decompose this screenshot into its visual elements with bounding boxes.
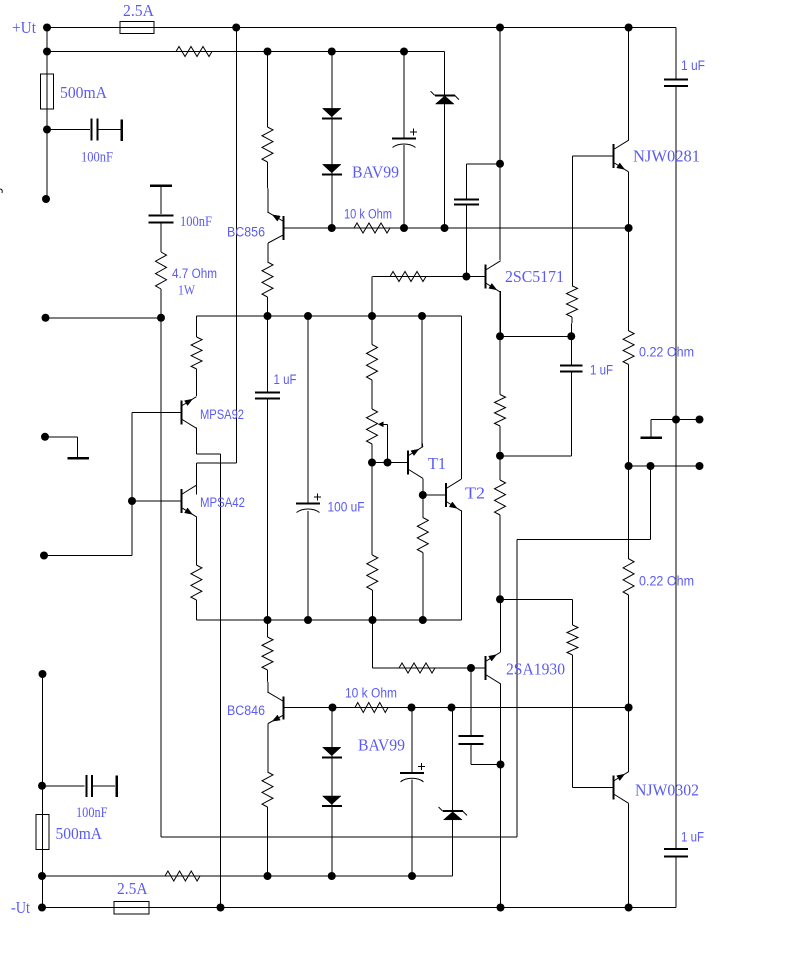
svg-text:1 uF: 1 uF	[681, 830, 704, 845]
svg-text:2SC5171: 2SC5171	[505, 267, 564, 286]
svg-text:1 uF: 1 uF	[274, 372, 297, 387]
svg-text:1 uF: 1 uF	[681, 58, 705, 73]
svg-text:100nF: 100nF	[81, 150, 113, 166]
svg-text:NJW0281: NJW0281	[633, 147, 700, 166]
svg-text:NJW0302: NJW0302	[635, 781, 699, 800]
svg-text:BC856: BC856	[227, 225, 265, 240]
svg-text:2SA1930: 2SA1930	[506, 660, 565, 679]
svg-text:MPSA92: MPSA92	[200, 407, 244, 422]
svg-text:BAV99: BAV99	[352, 163, 399, 182]
svg-text:100nF: 100nF	[180, 214, 212, 230]
svg-text:500mA: 500mA	[60, 83, 108, 102]
svg-text:2.5A: 2.5A	[117, 879, 148, 898]
svg-text:1W: 1W	[178, 284, 196, 299]
svg-text:-Ut: -Ut	[11, 898, 30, 917]
svg-text:1 uF: 1 uF	[590, 363, 613, 378]
svg-text:+Ut: +Ut	[12, 18, 36, 37]
svg-text:0.22 Ohm: 0.22 Ohm	[639, 345, 694, 360]
svg-text:10 k Ohm: 10 k Ohm	[344, 207, 392, 222]
svg-text:0.22 Ohm: 0.22 Ohm	[639, 574, 694, 589]
svg-text:4.7 Ohm: 4.7 Ohm	[172, 266, 217, 281]
svg-text:MPSA42: MPSA42	[200, 495, 245, 510]
svg-text:T1: T1	[428, 454, 446, 473]
svg-text:T2: T2	[465, 484, 485, 503]
svg-text:2.5A: 2.5A	[123, 1, 155, 20]
svg-text:BAV99: BAV99	[358, 736, 405, 755]
svg-text:10 k Ohm: 10 k Ohm	[345, 686, 397, 701]
svg-text:100 uF: 100 uF	[328, 500, 365, 515]
svg-text:500mA: 500mA	[56, 824, 103, 843]
svg-text:BC846: BC846	[227, 703, 265, 718]
svg-text:100nF: 100nF	[76, 805, 108, 821]
